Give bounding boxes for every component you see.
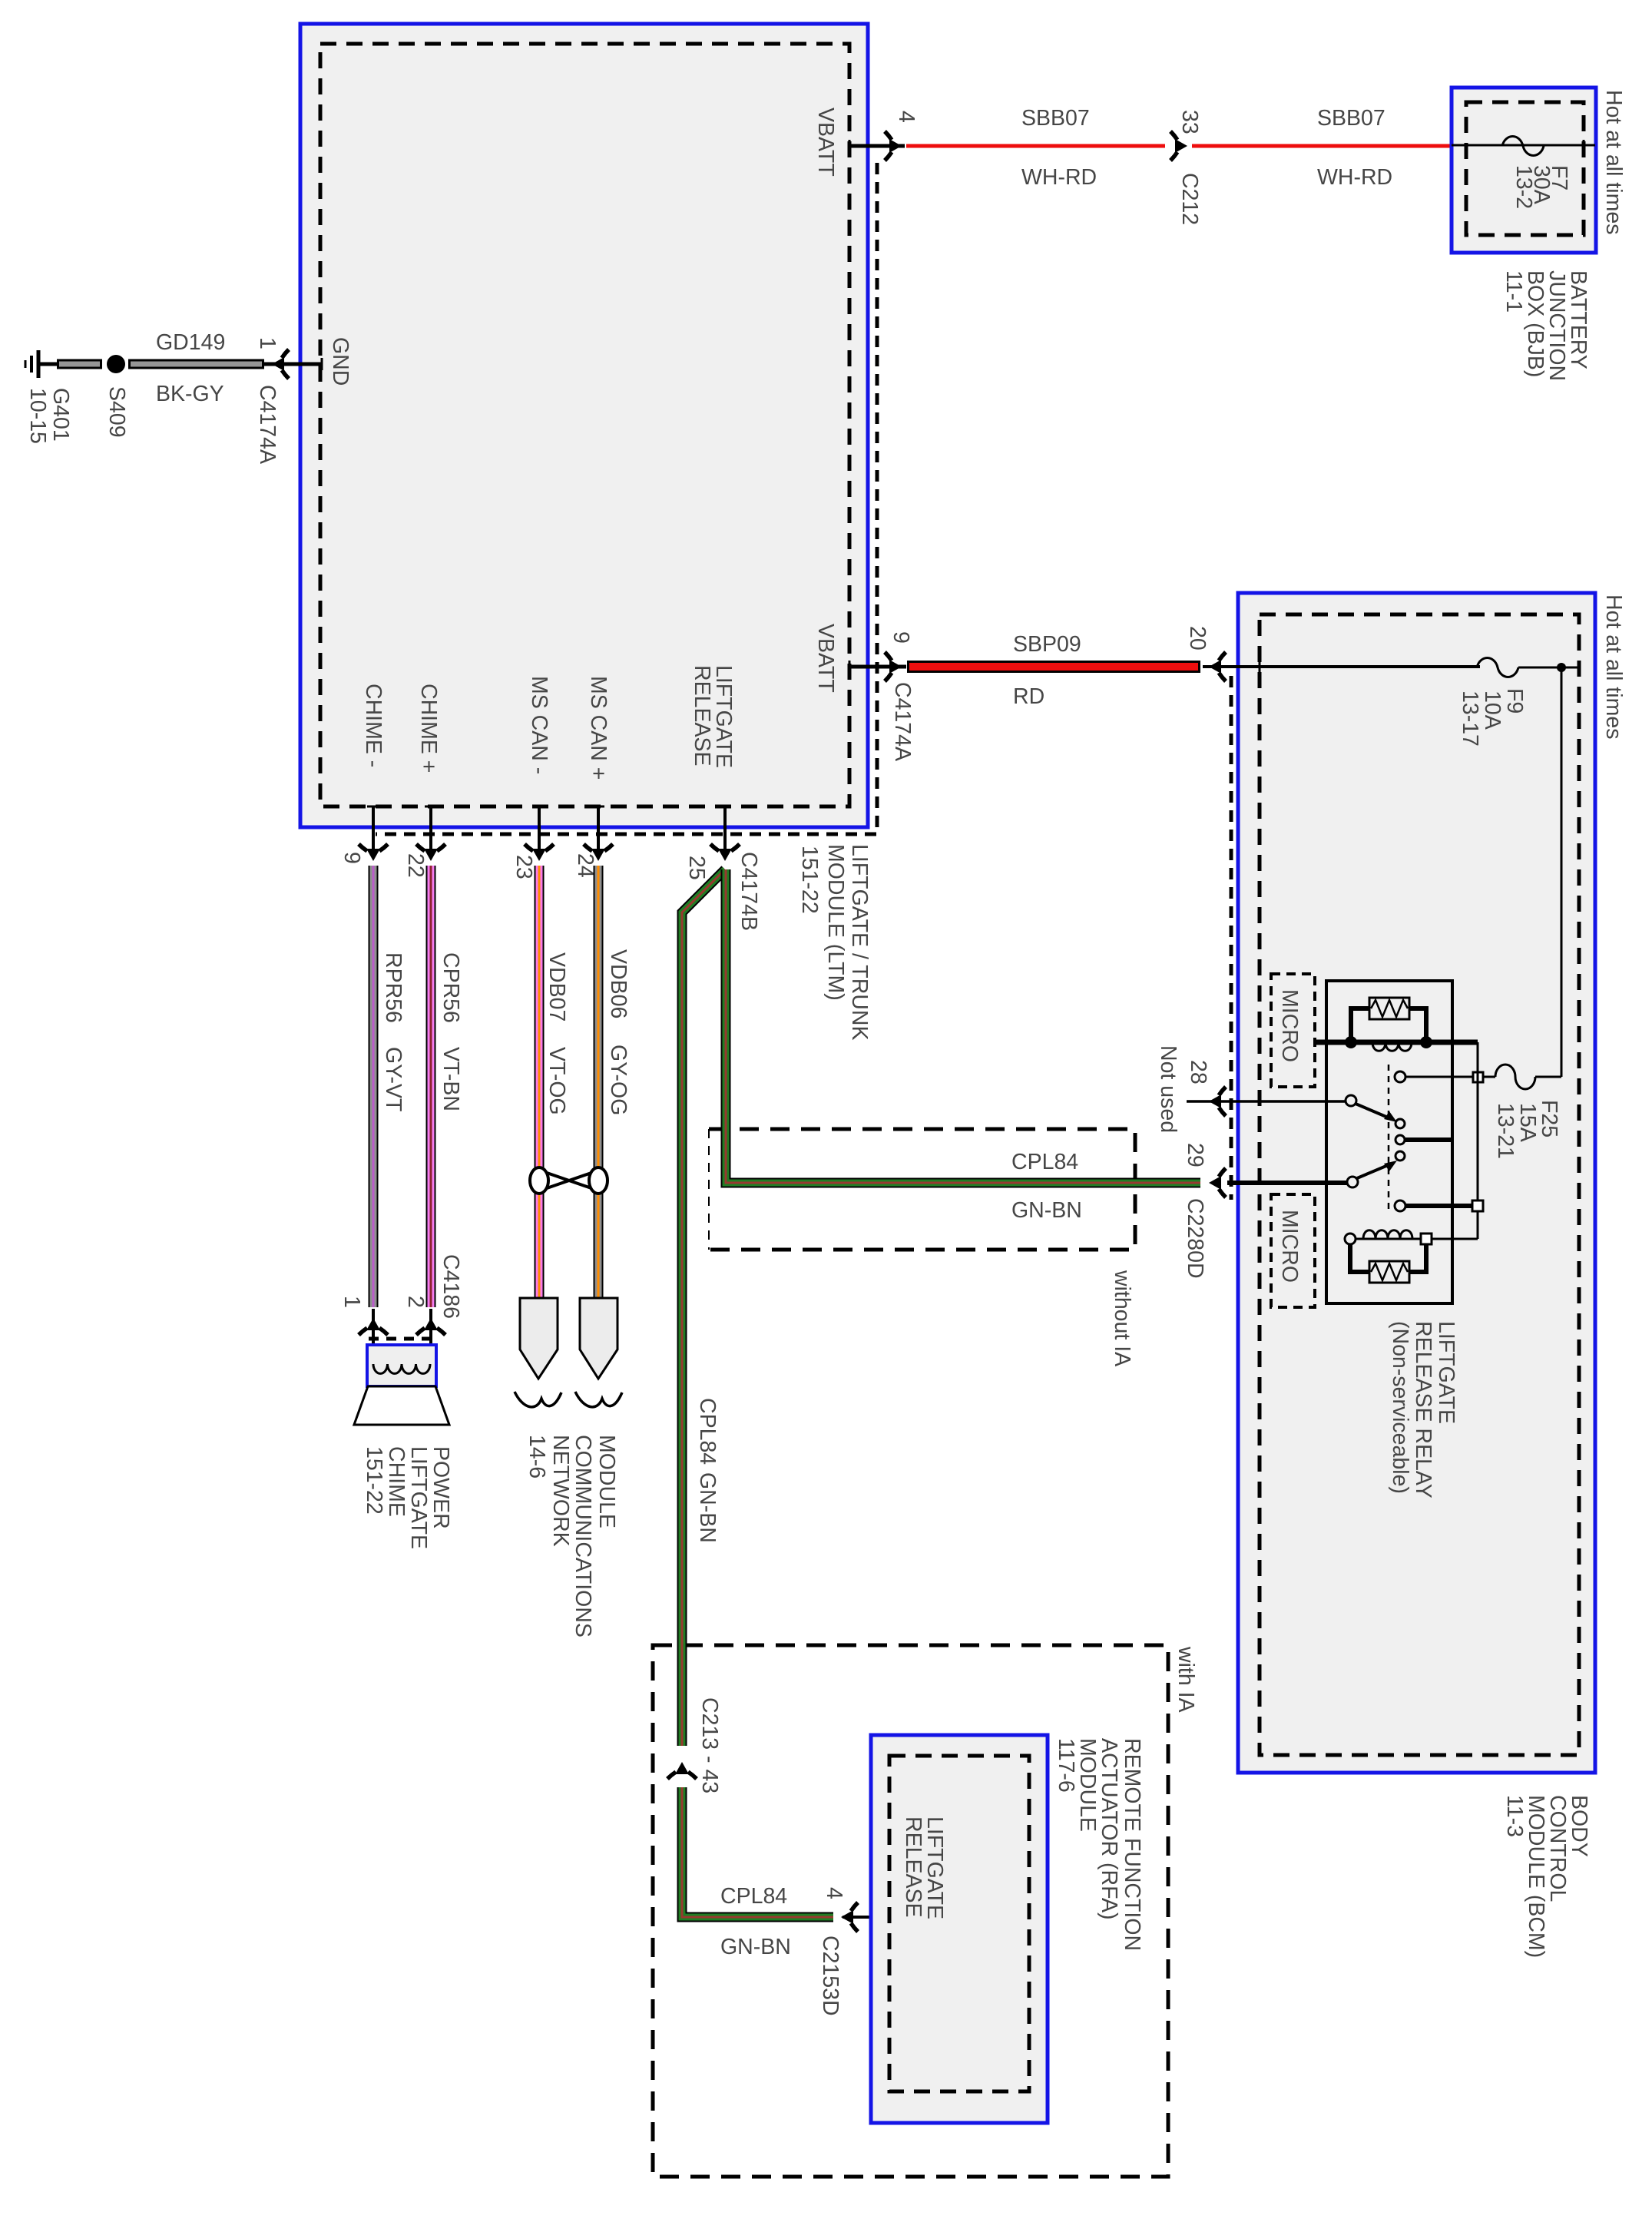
svg-text:WH-RD: WH-RD	[1317, 165, 1392, 190]
svg-text:MODULE (LTM): MODULE (LTM)	[823, 844, 848, 1001]
connector C213 arrow	[667, 1762, 697, 1779]
svg-text:RELEASE: RELEASE	[901, 1816, 925, 1917]
svg-text:33: 33	[1177, 110, 1202, 134]
svg-text:(Non-serviceable): (Non-serviceable)	[1388, 1321, 1412, 1494]
BCM connector bracket dashed line	[1230, 676, 1233, 1200]
speaker pin leads	[372, 1309, 375, 1364]
svg-text:GN-BN: GN-BN	[720, 1935, 791, 1959]
wire SBB07 WH-RD segment 1	[906, 144, 1165, 148]
wire pin 24 lead (MS CAN +)	[597, 806, 600, 854]
wire SBP09 RD	[907, 661, 1200, 673]
wire lead into LTM GND pin	[264, 363, 322, 366]
svg-text:23: 23	[511, 855, 536, 879]
relay coil L1 (upper)	[1372, 1042, 1412, 1051]
LTM inner dashed boundary	[320, 44, 849, 806]
module RFA box (REMOTE FUNCTION ACTUATOR MODULE)	[871, 1735, 1048, 2123]
svg-text:14-6: 14-6	[525, 1435, 549, 1479]
svg-text:S409: S409	[104, 386, 129, 438]
wire GD149 BK-GY segment 1	[57, 359, 102, 369]
svg-text:LIFTGATE: LIFTGATE	[406, 1446, 431, 1549]
svg-text:BK-GY: BK-GY	[156, 382, 224, 406]
drain curl (MS CAN -)	[515, 1392, 561, 1407]
svg-text:CHIME: CHIME	[384, 1446, 409, 1517]
connector arrow pin 22	[416, 844, 445, 861]
wire GD149 BK-GY segment 2	[128, 359, 264, 369]
wire pin 22 lead (CHIME +)	[429, 806, 432, 854]
wire pin 20 into BCM to fuse F9	[1203, 665, 1480, 668]
vertical link right of relay	[1477, 1042, 1479, 1200]
svg-text:NETWORK: NETWORK	[548, 1435, 573, 1547]
wire pin 25 lead (LIFTGATE RELEASE)	[723, 806, 727, 854]
without IA dashed box	[709, 1129, 1135, 1250]
wire VDB06 GY-OG	[594, 866, 604, 1298]
svg-text:G401: G401	[48, 388, 73, 442]
connector arrow pin 29	[1209, 1168, 1226, 1197]
svg-text:GN-BN: GN-BN	[695, 1472, 720, 1543]
svg-text:RELEASE RELAY: RELEASE RELAY	[1411, 1321, 1435, 1498]
svg-text:CHIME -: CHIME -	[361, 684, 386, 767]
svg-text:GY-VT: GY-VT	[381, 1047, 406, 1111]
svg-text:GN-BN: GN-BN	[1011, 1198, 1082, 1223]
connector arrow pin 24	[584, 844, 613, 861]
resistor R1 (upper, in relay)	[1351, 998, 1426, 1040]
wire VBATT pin 9 lead	[849, 665, 906, 669]
svg-text:10-15: 10-15	[25, 388, 50, 444]
svg-text:COMMUNICATIONS: COMMUNICATIONS	[571, 1435, 595, 1638]
svg-text:CHIME +: CHIME +	[416, 684, 441, 773]
resistor R2 (lower, in relay)	[1350, 1244, 1426, 1283]
BCM inner dashed boundary	[1260, 614, 1579, 1755]
svg-text:C212: C212	[1177, 173, 1202, 225]
wire RPR56 GY-VT	[369, 866, 379, 1307]
module BCM box (BODY CONTROL MODULE)	[1238, 593, 1595, 1773]
speaker voice coil	[373, 1364, 430, 1373]
junction node (bus right)	[1420, 1036, 1432, 1048]
module LTM box (LIFTGATE / TRUNK MODULE)	[300, 24, 868, 827]
svg-text:25: 25	[684, 856, 709, 880]
svg-text:9: 9	[339, 852, 364, 864]
fuse F9 10A	[1477, 658, 1518, 677]
relay supply bus	[1313, 1040, 1478, 1045]
svg-text:MODULE: MODULE	[594, 1435, 619, 1528]
svg-text:VBATT: VBATT	[813, 108, 838, 177]
svg-text:22: 22	[403, 853, 428, 878]
svg-text:151-22: 151-22	[797, 846, 822, 914]
connector bracket C4174A/C4174B dashed line (right and bottom of LTM)	[376, 163, 877, 834]
svg-text:VDB07: VDB07	[545, 952, 569, 1022]
relay contacts (center)	[1395, 1119, 1405, 1128]
svg-text:Hot at all times: Hot at all times	[1601, 90, 1626, 234]
svg-text:F9: F9	[1502, 688, 1527, 714]
wire CPL84 GN-BN (to BCM pin 29, without IA)	[726, 869, 1200, 1183]
with IA dashed box	[653, 1645, 1168, 2177]
relay contact (upper NC) and feed to F25	[1395, 1071, 1405, 1082]
connector arrow RFA pin 4	[841, 1902, 858, 1932]
wire pin 23 lead (MS CAN -)	[538, 806, 541, 854]
svg-text:C213 - 43: C213 - 43	[697, 1697, 722, 1793]
svg-text:2: 2	[403, 1296, 428, 1308]
svg-text:GD149: GD149	[156, 330, 225, 355]
wire lead into RFA	[843, 1916, 891, 1919]
connector arrow at C4174A (GND)	[272, 349, 289, 379]
connector arrow speaker pin 1	[359, 1318, 388, 1335]
svg-text:4: 4	[894, 111, 919, 123]
relay actuation dashed link	[1388, 1065, 1390, 1211]
svg-text:SBP09: SBP09	[1013, 632, 1081, 657]
svg-text:without IA: without IA	[1110, 1270, 1134, 1366]
svg-text:117-6: 117-6	[1054, 1738, 1078, 1793]
connector arrow pin 20	[1209, 652, 1226, 681]
svg-text:LIFTGATE / TRUNK: LIFTGATE / TRUNK	[847, 844, 872, 1040]
connector arrow pin 23	[525, 844, 554, 861]
svg-text:1: 1	[255, 337, 280, 349]
wire CPR56 VT-BN	[426, 866, 436, 1307]
svg-text:with IA: with IA	[1174, 1646, 1198, 1713]
module BJB box (BATTERY JUNCTION BOX)	[1452, 88, 1596, 253]
MICRO dashed box (upper)	[1271, 974, 1315, 1087]
wire VDB07 VT-OG	[535, 866, 545, 1298]
junction node at F9 output	[1557, 663, 1566, 672]
svg-text:POWER: POWER	[429, 1446, 453, 1529]
svg-text:13-21: 13-21	[1493, 1103, 1518, 1159]
wire GND lead from ground symbol	[38, 363, 58, 366]
svg-text:GND: GND	[328, 337, 353, 386]
svg-text:Not used: Not used	[1156, 1045, 1180, 1133]
shield arrow (MS CAN -)	[520, 1298, 558, 1379]
twisted pair symbol	[530, 1167, 607, 1194]
pin 29 wire inside BCM	[1227, 1181, 1348, 1185]
svg-text:CPL84: CPL84	[720, 1884, 787, 1909]
svg-text:CPL84: CPL84	[695, 1398, 720, 1465]
svg-text:10A: 10A	[1480, 690, 1505, 730]
pin 28 wire (Not used)	[1187, 1100, 1346, 1103]
svg-text:Hot at all times: Hot at all times	[1601, 594, 1626, 739]
fuse F25 15A	[1482, 1076, 1495, 1078]
svg-text:C4174A: C4174A	[890, 682, 915, 761]
svg-text:SBB07: SBB07	[1317, 106, 1385, 131]
svg-text:VDB06: VDB06	[606, 949, 631, 1018]
svg-text:CPL84: CPL84	[1011, 1150, 1078, 1174]
svg-text:MICRO: MICRO	[1277, 989, 1302, 1062]
wire (patch over dashed box edge)	[677, 1628, 687, 1674]
svg-text:MS CAN +: MS CAN +	[586, 676, 611, 780]
splice S409	[107, 355, 125, 373]
shield arrow (MS CAN +)	[580, 1298, 617, 1379]
svg-text:CPR56: CPR56	[439, 952, 463, 1023]
connector arrow speaker pin 2	[416, 1318, 445, 1335]
connector arrow pin 4	[885, 131, 902, 161]
connector C4186 dashed bracket	[369, 1337, 432, 1341]
svg-text:GY-OG: GY-OG	[606, 1045, 631, 1115]
svg-text:VT-OG: VT-OG	[545, 1047, 569, 1115]
connector arrow pin 9 chime	[359, 844, 388, 861]
wire VBATT pin 4 lead	[849, 144, 905, 148]
switch blade (lower)	[1347, 1177, 1358, 1187]
fuse F7 30A	[1502, 137, 1544, 156]
wire SBB07 WH-RD segment 2	[1192, 144, 1453, 148]
wire from F9 down to F25	[1561, 667, 1563, 1077]
svg-text:20: 20	[1185, 626, 1210, 651]
wire CPL84 GN-BN (to RFA, with IA)	[682, 869, 725, 1746]
svg-text:151-22: 151-22	[362, 1446, 386, 1515]
svg-text:MS CAN -: MS CAN -	[527, 676, 551, 774]
ground G401 symbol	[25, 350, 38, 378]
connector C212 arrow	[1170, 131, 1187, 161]
svg-text:RD: RD	[1013, 684, 1045, 709]
wire CPL84 GN-BN lower section	[682, 1787, 833, 1917]
wire pin 9 lead (CHIME -)	[372, 806, 375, 854]
junction node (bus left)	[1345, 1036, 1357, 1048]
svg-text:RPR56: RPR56	[381, 952, 406, 1023]
relay K (liftgate release relay) box	[1326, 981, 1452, 1303]
svg-text:11-1: 11-1	[1501, 270, 1526, 313]
svg-text:RELEASE: RELEASE	[690, 665, 714, 766]
svg-text:1: 1	[339, 1296, 364, 1308]
connector arrow pin 28	[1209, 1087, 1226, 1116]
wire through fuse F7	[1452, 144, 1595, 147]
svg-text:4: 4	[822, 1887, 846, 1899]
drain curl (MS CAN +)	[575, 1392, 622, 1407]
switch blade (upper)	[1346, 1095, 1356, 1106]
connector arrow pin 9	[885, 652, 902, 681]
svg-text:LIFTGATE: LIFTGATE	[1434, 1321, 1458, 1424]
svg-text:C2153D: C2153D	[818, 1936, 843, 2016]
MICRO dashed box (lower)	[1271, 1194, 1315, 1307]
svg-text:28: 28	[1186, 1060, 1210, 1085]
speaker (power liftgate chime) body	[367, 1345, 436, 1386]
svg-text:REMOTE FUNCTION: REMOTE FUNCTION	[1120, 1738, 1144, 1951]
svg-text:11-3: 11-3	[1502, 1795, 1527, 1837]
svg-text:SBB07: SBB07	[1021, 106, 1090, 131]
svg-text:VBATT: VBATT	[813, 624, 838, 693]
svg-text:WH-RD: WH-RD	[1021, 165, 1097, 190]
svg-text:13-2: 13-2	[1511, 165, 1536, 209]
svg-text:9: 9	[889, 631, 913, 644]
pin 1 tick	[321, 358, 323, 370]
RFA inner dashed boundary	[889, 1756, 1029, 2091]
svg-text:29: 29	[1183, 1143, 1207, 1167]
svg-text:13-17: 13-17	[1458, 690, 1482, 747]
relay coil L2 (lower)	[1345, 1234, 1356, 1244]
speaker horn	[354, 1386, 449, 1425]
svg-text:C4186: C4186	[439, 1254, 463, 1319]
svg-text:C2280D: C2280D	[1183, 1198, 1207, 1279]
svg-text:15A: 15A	[1515, 1103, 1540, 1142]
svg-text:VT-BN: VT-BN	[439, 1047, 463, 1111]
connector arrow pin 25	[710, 844, 740, 861]
svg-text:C4174A: C4174A	[255, 385, 280, 464]
BJB inner dashed boundary	[1466, 102, 1584, 235]
svg-text:C4174B: C4174B	[737, 852, 761, 931]
svg-text:MICRO: MICRO	[1277, 1210, 1302, 1283]
output stub from center contact	[1405, 1137, 1452, 1142]
lower contact row	[1395, 1200, 1405, 1211]
